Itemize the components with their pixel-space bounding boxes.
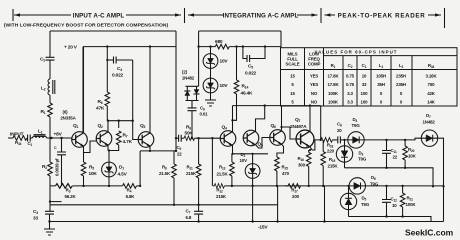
- svg-text:10V: 10V: [220, 59, 229, 65]
- wire: drop D2 to -15V rail: [252, 186, 254, 222]
- diode D7 1N482: [421, 113, 444, 222]
- table outer border: [281, 48, 458, 106]
- svg-text:6.8K: 6.8K: [126, 194, 136, 199]
- svg-text:21.5K: 21.5K: [159, 171, 171, 176]
- wire: collector jog line: [107, 120, 132, 122]
- resistor R17: [285, 184, 301, 199]
- capacitor C5: [242, 45, 266, 76]
- resistor R34: [13, 136, 27, 146]
- zener diode 10V upper: [203, 54, 228, 69]
- svg-text:YES: YES: [310, 73, 319, 78]
- svg-text:22: 22: [177, 152, 182, 157]
- svg-text:PEAK-TO-PEAK READER: PEAK-TO-PEAK READER: [338, 12, 426, 19]
- arrowheads header: [14, 13, 20, 16]
- svg-text:+ 20 V: + 20 V: [64, 45, 78, 51]
- svg-text:750: 750: [428, 82, 436, 87]
- capacitor C11: [382, 139, 398, 169]
- svg-text:0.022: 0.022: [245, 71, 257, 77]
- svg-text:(6): (6): [63, 110, 69, 115]
- svg-text:NO: NO: [311, 100, 318, 105]
- svg-text:10: 10: [362, 73, 367, 78]
- svg-text:56.2K: 56.2K: [65, 194, 77, 199]
- svg-text:2N497A: 2N497A: [290, 124, 307, 130]
- svg-text:SeekIC.com: SeekIC.com: [405, 228, 454, 238]
- header tick left: [12, 9, 14, 21]
- svg-text:46.4K: 46.4K: [241, 91, 254, 97]
- transistor Q2: [96, 121, 112, 151]
- capacitor C3: [33, 209, 54, 229]
- svg-text:C: C: [54, 146, 57, 150]
- header tick 2: [184, 8, 186, 23]
- resistor R12: [214, 184, 227, 199]
- capacitor C12: [382, 185, 397, 218]
- transistor Q7: [290, 104, 314, 150]
- resistor R9: [184, 124, 220, 140]
- svg-text:215K: 215K: [328, 164, 339, 169]
- wire: header line integrating section: [188, 14, 318, 16]
- svg-text:15: 15: [290, 73, 295, 78]
- resistor R14: [233, 45, 254, 120]
- wire: drop from feed line to output node: [320, 106, 322, 140]
- table column lines: [305, 48, 413, 106]
- wire: C2/L2/R1 branch top: [49, 31, 51, 57]
- capacitor C2: [40, 57, 55, 80]
- svg-text:17.8K: 17.8K: [328, 73, 340, 78]
- svg-text:6.8: 6.8: [186, 215, 192, 220]
- wire: C4 right leg to Q3 base: [133, 60, 139, 140]
- wire: lower link line: [50, 201, 62, 203]
- wire: Q4 base drop: [211, 138, 213, 186]
- zener diode 10V lower: [203, 68, 228, 100]
- svg-text:INPUT: INPUT: [10, 132, 24, 138]
- svg-text:235H: 235H: [396, 73, 406, 78]
- wire: vertical x=176 feedback to Q3 emitter node: [175, 31, 177, 151]
- svg-text:22: 22: [393, 155, 398, 160]
- svg-text:15: 15: [290, 91, 295, 96]
- wire: Q3 emitter line: [140, 150, 176, 152]
- resistor R1: [41, 103, 53, 138]
- svg-text:14K: 14K: [427, 100, 436, 105]
- wire: -15V rail: [50, 221, 444, 223]
- svg-text:T9G: T9G: [370, 182, 379, 187]
- resistor 680: [197, 39, 281, 49]
- svg-text:0.022: 0.022: [112, 73, 124, 79]
- svg-text:-15V: -15V: [258, 225, 268, 231]
- svg-text:3.3: 3.3: [347, 91, 353, 96]
- resistor R16: [298, 149, 312, 187]
- wire: emitter line y=153.8: [232, 153, 268, 155]
- resistor R19: [321, 140, 339, 223]
- capacitor C4: [106, 57, 132, 79]
- transistor Q3: [138, 45, 154, 151]
- transistor Q4: [220, 106, 236, 154]
- resistor R5: [81, 162, 97, 186]
- ground below zeners: [205, 100, 216, 106]
- capacitor 0.0039uf branch: [54, 137, 66, 186]
- svg-text:21.5K: 21.5K: [217, 172, 229, 177]
- svg-text:100: 100: [361, 100, 369, 105]
- wire: Q7 emitter to output node: [312, 140, 321, 150]
- inductor L2: [48, 79, 55, 103]
- resistor R7: [108, 121, 133, 151]
- resistor R8: [159, 151, 176, 206]
- svg-text:10V: 10V: [240, 158, 248, 163]
- capacitor C9: [175, 135, 184, 157]
- wire: integrating outer top rail: [199, 31, 281, 86]
- transistor Q1: [72, 47, 88, 162]
- resistor R2: [42, 162, 52, 211]
- table line under headers: [281, 69, 458, 71]
- svg-text:200: 200: [292, 194, 300, 199]
- svg-text:20: 20: [337, 128, 342, 133]
- header tick right: [444, 8, 446, 28]
- wire: Q1 emitter to Q2 base: [84, 141, 97, 153]
- inductor L1: [33, 135, 72, 138]
- svg-text:17.8K: 17.8K: [328, 82, 340, 87]
- table line under title: [324, 55, 458, 57]
- svg-text:300: 300: [298, 163, 306, 168]
- transistor Q6: [270, 106, 286, 157]
- svg-text:215K: 215K: [186, 171, 197, 176]
- wire: header line input section: [14, 14, 181, 16]
- svg-text:0.01: 0.01: [200, 112, 209, 117]
- wire: lower emitter bus to reader: [213, 185, 444, 187]
- svg-text:0.75: 0.75: [346, 73, 355, 78]
- svg-text:100K: 100K: [328, 91, 339, 96]
- svg-text:T9G: T9G: [361, 202, 370, 207]
- wire: lower bus lineB: [50, 204, 278, 206]
- wire: reader bottom line: [349, 217, 432, 222]
- resistor R18: [321, 138, 335, 154]
- svg-text:105H: 105H: [376, 73, 386, 78]
- node +8V: [50, 137, 52, 139]
- svg-text:1N482: 1N482: [182, 76, 195, 81]
- svg-text:0.0039 µf: 0.0039 µf: [55, 158, 60, 176]
- svg-text:0.75: 0.75: [346, 82, 355, 87]
- svg-text:T9G: T9G: [352, 123, 361, 128]
- svg-text:T9G: T9G: [358, 157, 367, 162]
- svg-text:220: 220: [327, 149, 335, 154]
- svg-text:2N335A: 2N335A: [60, 116, 76, 121]
- capacitor C6: [188, 106, 209, 140]
- wire: reader mid line: [345, 168, 434, 187]
- wire: header line reader section: [325, 14, 442, 16]
- svg-text:680: 680: [215, 39, 223, 45]
- svg-text:(WITH LOW-FREQUENCY BOOST FOR: (WITH LOW-FREQUENCY BOOST FOR DETECTOR C…: [4, 23, 169, 29]
- resistor R4: [123, 184, 137, 199]
- resistor R11: [186, 137, 201, 206]
- capacitor C8: [333, 122, 348, 144]
- zener diode D2 10V: [240, 152, 261, 187]
- svg-text:33: 33: [362, 82, 367, 87]
- svg-text:4.5V: 4.5V: [118, 172, 128, 178]
- svg-text:100K: 100K: [406, 202, 417, 207]
- svg-text:10: 10: [392, 203, 397, 208]
- resistor R15: [275, 157, 290, 223]
- diode D3 T9G: [336, 139, 367, 168]
- svg-text:35H: 35H: [377, 82, 385, 87]
- resistor R3: [56, 184, 77, 199]
- wire: R2 branch: [49, 138, 51, 162]
- svg-text:COMP: COMP: [308, 62, 321, 67]
- svg-text:100K: 100K: [328, 100, 339, 105]
- wire: Q7 base feed: [282, 127, 296, 139]
- svg-text:(2): (2): [182, 70, 188, 75]
- svg-text:NO: NO: [311, 91, 318, 96]
- svg-text:470: 470: [282, 171, 290, 176]
- svg-text:+8V: +8V: [54, 131, 63, 137]
- resistor R13: [217, 154, 235, 187]
- svg-text:4.7K: 4.7K: [123, 139, 133, 145]
- svg-text:SCALE: SCALE: [285, 62, 299, 67]
- svg-text:YES: YES: [310, 82, 319, 87]
- wire: input stub: [8, 137, 13, 139]
- diode D5 T9G: [340, 185, 370, 217]
- svg-text:10K: 10K: [89, 171, 98, 177]
- wire: +20V rail: [83, 47, 176, 133]
- svg-text:1N482: 1N482: [423, 120, 436, 125]
- svg-text:VALUES FOR 60-CPS INPUT: VALUES FOR 60-CPS INPUT: [314, 50, 397, 55]
- svg-text:42K: 42K: [427, 91, 436, 96]
- wire: drop from emitter line to bus: [139, 151, 141, 186]
- svg-text:3.16K: 3.16K: [426, 73, 438, 78]
- svg-text:47K: 47K: [96, 106, 105, 112]
- header tick 3: [320, 8, 322, 23]
- diode D6 T9G: [349, 175, 379, 194]
- wire: collector feed line under table: [233, 105, 321, 107]
- svg-text:10K: 10K: [408, 154, 417, 159]
- svg-text:10V: 10V: [220, 83, 229, 89]
- diode D1 4.5V: [102, 149, 128, 186]
- wire: emitter bus left: [50, 185, 140, 187]
- svg-text:215K: 215K: [216, 194, 227, 199]
- wire: zener stub: [210, 47, 212, 54]
- svg-text:235H: 235H: [396, 82, 406, 87]
- svg-text:3.3: 3.3: [347, 100, 353, 105]
- svg-text:INTEGRATING A-C AMPL: INTEGRATING A-C AMPL: [223, 12, 299, 19]
- ground: [44, 229, 55, 235]
- capacitor C1: [28, 135, 33, 148]
- diodes (2) 1N482: [184, 86, 199, 107]
- svg-text:33: 33: [33, 216, 38, 222]
- resistor R6: [96, 45, 110, 120]
- capacitor C7: [186, 205, 204, 223]
- transistor Q5: [243, 104, 269, 148]
- resistor R20: [403, 139, 417, 169]
- svg-text:INPUT A-C AMPL: INPUT A-C AMPL: [73, 12, 125, 19]
- svg-text:100: 100: [361, 91, 369, 96]
- resistor R21: [400, 185, 416, 218]
- diode D4 T9G: [348, 117, 422, 148]
- wire: feedback top rail: [50, 30, 176, 32]
- svg-text:50K: 50K: [185, 130, 194, 136]
